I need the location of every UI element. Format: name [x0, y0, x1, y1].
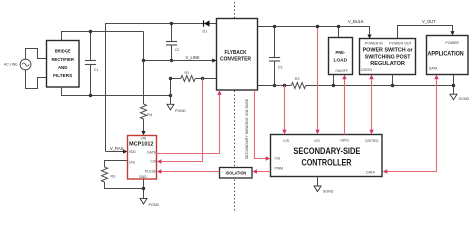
- svg-text:R2: R2: [295, 77, 300, 81]
- wire red CONTROL: [369, 75, 373, 135]
- svg-text:R3: R3: [111, 174, 116, 178]
- svg-text:MCP1012: MCP1012: [129, 142, 153, 148]
- wire MCP1012 GND: [143, 179, 145, 198]
- wire red V_BULK sense to V/S controller: [315, 27, 319, 135]
- node VIN arrow into MCP1012: [141, 131, 145, 135]
- svg-text:C/S: C/S: [150, 160, 156, 164]
- svg-text:C1: C1: [94, 68, 99, 72]
- svg-text:BRIDGE: BRIDGE: [55, 49, 71, 54]
- capacitor C1: [85, 32, 99, 96]
- resistor R2: [291, 77, 305, 89]
- svg-text:ON/OFF: ON/OFF: [335, 69, 348, 73]
- junction C1 bottom: [89, 94, 92, 97]
- svg-text:V/S: V/S: [314, 139, 320, 143]
- block MCP1012: [128, 136, 157, 180]
- node V_RAIL into VDD: [106, 146, 128, 154]
- wire red C/S top to controller: [282, 86, 286, 135]
- svg-text:CONTROL: CONTROL: [361, 68, 373, 72]
- wire red ISOLATION to PULSE: [157, 169, 220, 173]
- svg-text:D1: D1: [203, 30, 208, 34]
- svg-text:V_BULK: V_BULK: [348, 19, 364, 24]
- junction R1 to current sense tap: [201, 77, 204, 80]
- svg-text:CONVERTER: CONVERTER: [220, 56, 251, 62]
- wire V_LINK from bridge output: [144, 32, 213, 61]
- resistor R4: [141, 61, 153, 132]
- AC source AC LINE: [4, 59, 31, 70]
- svg-text:CONTROL: CONTROL: [365, 139, 379, 143]
- node V_LINK arrow into flyback: [186, 55, 217, 63]
- wire AC source bottom lead: [26, 70, 47, 89]
- svg-text:FLYBACK: FLYBACK: [225, 50, 247, 56]
- svg-text:ISOLATION: ISOLATION: [226, 170, 247, 175]
- wire secondary return rail right: [306, 85, 454, 87]
- svg-text:PRE-: PRE-: [336, 50, 346, 55]
- junction preload bottom: [332, 84, 335, 87]
- junction GND / R3: [142, 187, 145, 190]
- svg-text:LFD: LFD: [129, 160, 136, 164]
- svg-text:R4: R4: [147, 113, 152, 117]
- junction C3 top: [273, 25, 276, 28]
- svg-text:SGND: SGND: [323, 190, 334, 194]
- wire red GPIO to preload ON/OFF: [342, 75, 346, 135]
- svg-text:R1: R1: [185, 71, 190, 75]
- wire bridge output up: [62, 32, 144, 41]
- svg-text:GATE: GATE: [147, 150, 157, 154]
- svg-text:RECTIFIER: RECTIFIER: [51, 57, 74, 62]
- svg-text:V_RAIL: V_RAIL: [110, 146, 125, 151]
- wire bridge return down to ground rail: [62, 87, 171, 96]
- junction application ground: [452, 84, 455, 87]
- junction V_BULK sense: [316, 25, 319, 28]
- svg-text:V_LINK: V_LINK: [186, 55, 200, 60]
- wire V_RAIL vertical and primary top rail: [106, 24, 217, 152]
- svg-text:SWITCHING POST: SWITCHING POST: [365, 54, 412, 60]
- svg-text:V_OUT: V_OUT: [422, 19, 436, 24]
- svg-text:C2: C2: [175, 48, 180, 52]
- svg-text:C3: C3: [278, 65, 283, 69]
- junction R1 rail left: [169, 77, 172, 80]
- junction C1 top: [89, 30, 92, 33]
- svg-text:VIN: VIN: [140, 137, 146, 141]
- junction C2 bottom on V_LINK: [170, 59, 173, 62]
- svg-text:PWM: PWM: [275, 166, 284, 170]
- svg-text:V/S: V/S: [275, 156, 281, 160]
- capacitor C3: [269, 27, 283, 86]
- resistor R3 on LFD: [102, 161, 144, 189]
- junction preload top rail: [337, 25, 340, 28]
- wire red secondary winding voltage to V/S: [255, 90, 271, 161]
- junction C2 top: [170, 22, 173, 25]
- ground PGND MCP1012: [140, 198, 159, 207]
- block POWER SWITCH or SWITCHING POST REGULATOR: [360, 39, 416, 75]
- node V_BULK arrow into POWER IN: [348, 19, 372, 39]
- wire power switch bottom to rail: [392, 75, 394, 86]
- block ISOLATION: [220, 168, 253, 179]
- svg-text:APPLICATION: APPLICATION: [428, 50, 464, 57]
- junction current sense tap secondary: [283, 84, 286, 87]
- wire secondary return rail left: [258, 85, 292, 87]
- svg-text:PGND: PGND: [175, 109, 186, 113]
- diode D1: [203, 20, 210, 33]
- svg-text:POWER IN: POWER IN: [365, 42, 383, 46]
- svg-text:POWER OUT: POWER OUT: [389, 42, 412, 46]
- svg-text:LOAD: LOAD: [334, 57, 348, 62]
- svg-text:SECONDARY-SIDE: SECONDARY-SIDE: [293, 146, 360, 156]
- wire preload bottom to rail: [333, 75, 335, 86]
- wire red GATE to flyback: [157, 90, 222, 153]
- svg-text:SGND: SGND: [459, 97, 470, 101]
- ground SGND application: [450, 94, 469, 101]
- junction power switch bottom: [391, 84, 394, 87]
- junction V_LINK: [142, 59, 145, 62]
- svg-text:AC LINE: AC LINE: [4, 63, 18, 67]
- junction ground rail end: [169, 94, 172, 97]
- block SECONDARY-SIDE CONTROLLER: [271, 135, 383, 177]
- svg-text:CONTROLLER: CONTROLLER: [302, 157, 352, 167]
- svg-text:PGND: PGND: [149, 203, 160, 207]
- svg-text:SECONDARY WINDING VOLTAGE: SECONDARY WINDING VOLTAGE: [245, 98, 249, 159]
- node SECONDARY WINDING VOLTAGE vertical label: [245, 98, 249, 159]
- wire red current sense to MCP1012 C/S: [157, 79, 203, 164]
- ground SGND controller: [314, 177, 334, 194]
- svg-text:POWER: POWER: [445, 41, 459, 45]
- svg-text:REGULATOR: REGULATOR: [370, 61, 405, 67]
- block FLYBACK CONVERTER: [217, 19, 258, 91]
- block APPLICATION: [427, 36, 469, 75]
- svg-text:POWER SWITCH or: POWER SWITCH or: [363, 48, 413, 54]
- wire AC source top lead: [26, 49, 47, 60]
- block PRE-LOAD: [329, 38, 353, 75]
- svg-text:DATA: DATA: [366, 171, 375, 175]
- wire red DATA: [383, 75, 439, 174]
- svg-text:GPIO: GPIO: [340, 139, 349, 143]
- capacitor C2: [166, 24, 180, 61]
- svg-text:DATA: DATA: [429, 67, 438, 71]
- svg-text:AND: AND: [58, 65, 68, 70]
- wire application bottom to rail and SGND: [453, 75, 455, 95]
- wire secondary top rail V_BULK: [258, 27, 370, 35]
- wire preload top: [338, 27, 340, 38]
- junction C3 bottom: [273, 84, 276, 87]
- wire ground to current-sense rail: [170, 79, 172, 96]
- svg-text:VDD: VDD: [129, 150, 137, 154]
- svg-text:FILTERS: FILTERS: [53, 73, 72, 78]
- block BRIDGE RECTIFIER AND FILTERS: [47, 41, 80, 88]
- wire POWER OUT / V_OUT: [398, 19, 455, 38]
- wire red PWM to ISOLATION: [252, 169, 270, 173]
- svg-text:PULSE: PULSE: [145, 169, 157, 173]
- svg-text:GND: GND: [139, 175, 147, 179]
- isolation barrier dashed line: [234, 2, 236, 211]
- ground PGND primary rail: [167, 96, 186, 114]
- resistor R1: [171, 71, 217, 81]
- svg-text:C/S: C/S: [283, 139, 290, 143]
